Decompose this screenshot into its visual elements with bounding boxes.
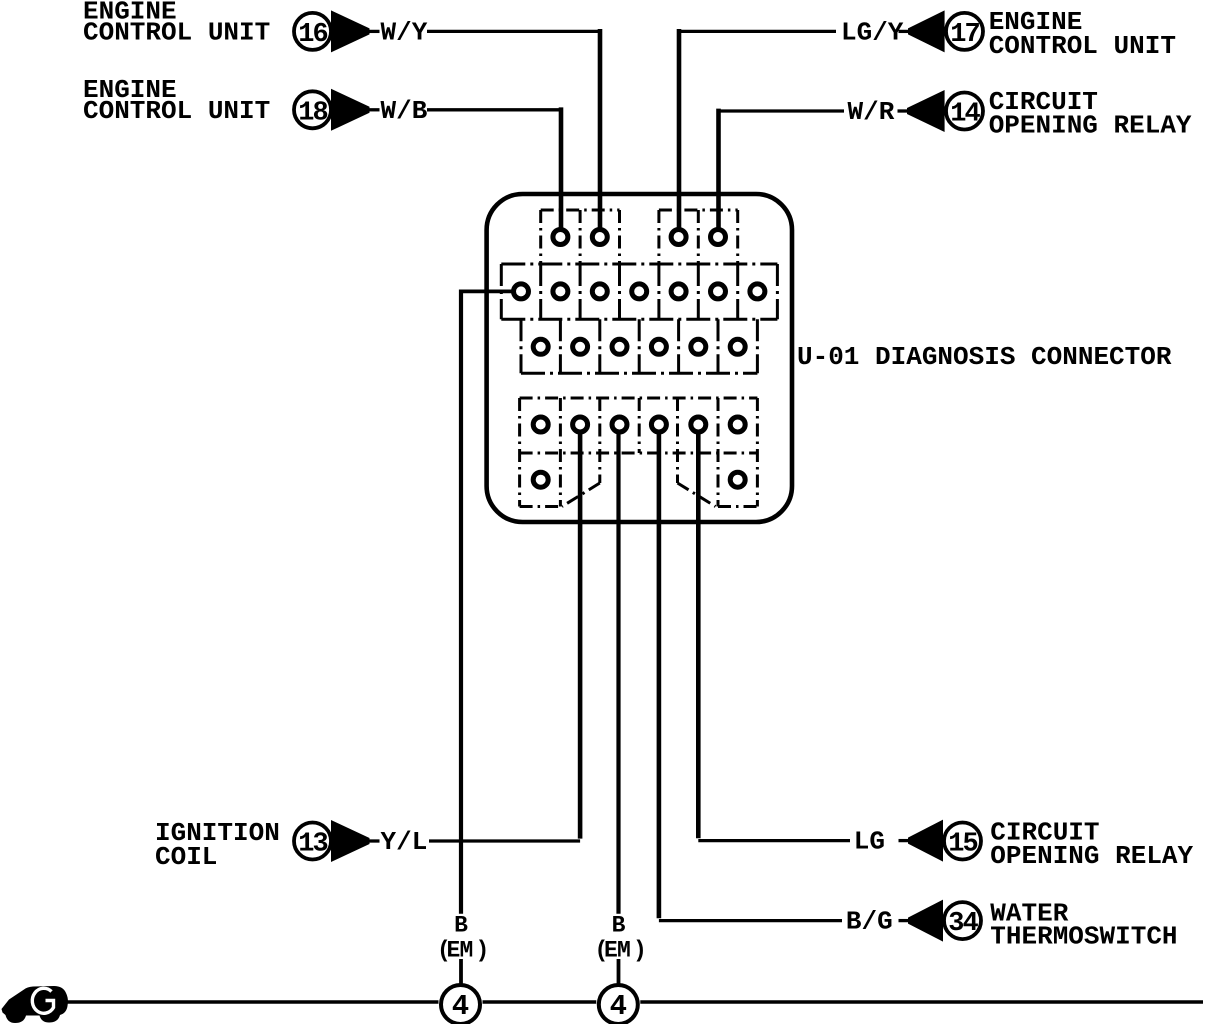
svg-text:15: 15	[948, 830, 977, 860]
arrow from ignition coil 13	[331, 820, 380, 862]
ground rail segment 2	[483, 1000, 597, 1003]
svg-text:Y/L: Y/L	[381, 827, 428, 857]
pin ref circle 14	[946, 93, 983, 130]
wire stub to ground circle 4 left	[459, 959, 463, 984]
ground joint circle 4 left	[441, 985, 480, 1024]
svg-text:B: B	[612, 913, 626, 939]
keying diagonal right	[678, 483, 716, 507]
connector cavity outlines band1 (top row)	[541, 209, 620, 212]
connector cavity outlines band4/5 (bottom group)	[520, 397, 758, 400]
wire W/R to connector pin row1-4	[719, 109, 845, 237]
svg-text:16: 16	[298, 20, 327, 50]
svg-text:THERMOSWITCH: THERMOSWITCH	[990, 921, 1177, 951]
svg-text:(EM): (EM)	[595, 937, 647, 963]
svg-text:13: 13	[298, 830, 327, 860]
pin ref circle 34	[944, 902, 981, 939]
svg-text:OPENING RELAY: OPENING RELAY	[990, 841, 1193, 871]
pin ref circle 17	[946, 13, 983, 50]
wire LG up to connector pin row4-5	[698, 425, 850, 841]
connector body U-01	[487, 194, 792, 522]
arrow from ECU 18	[331, 89, 380, 131]
svg-text:COIL: COIL	[155, 842, 217, 872]
ground joint circle 4 right	[599, 985, 638, 1024]
svg-text:U-01 DIAGNOSIS CONNECTOR: U-01 DIAGNOSIS CONNECTOR	[797, 342, 1172, 372]
arrow to circuit opening relay 15	[899, 820, 944, 862]
wire stub to ground circle 4 right	[617, 959, 621, 984]
ground rail segment 1	[67, 1000, 439, 1003]
svg-text:W/R: W/R	[848, 97, 895, 127]
keying diagonal left	[562, 483, 600, 507]
ground rail segment 3	[640, 1000, 1203, 1003]
svg-text:W/B: W/B	[381, 96, 428, 126]
pin ref circle 13	[294, 823, 331, 860]
connector pins row2	[514, 284, 529, 299]
arrow from ECU 16	[331, 10, 380, 52]
svg-text:CONTROL UNIT: CONTROL UNIT	[83, 18, 270, 48]
svg-text:14: 14	[950, 100, 980, 130]
svg-text:OPENING RELAY: OPENING RELAY	[989, 111, 1192, 141]
wire from pin row2-1 left and down to ground B(EM) left	[461, 290, 521, 914]
connector cavity outlines band3 (6-pin row)	[520, 319, 523, 373]
ground symbol G (car body)	[2, 986, 69, 1023]
wire W/B to connector pin row1-1	[427, 107, 561, 237]
svg-text:B/G: B/G	[846, 906, 893, 936]
ground symbol letter G	[32, 988, 53, 1013]
svg-text:34: 34	[948, 909, 978, 939]
wire Y/L up to connector pin row4-2	[429, 425, 580, 842]
connector pins row3	[533, 339, 548, 354]
wire LG/Y to connector pin row1-3	[679, 29, 836, 237]
svg-text:17: 17	[950, 20, 979, 50]
wire B/G up to connector pin row4-4	[659, 425, 842, 921]
arrow to ECU 17	[899, 10, 945, 52]
connector pins row4	[533, 417, 548, 432]
wire W/Y to connector pin row1-2	[427, 29, 600, 237]
svg-text:18: 18	[298, 98, 327, 128]
svg-text:W/Y: W/Y	[381, 18, 428, 48]
pin ref circle 16	[294, 13, 331, 50]
svg-text:4: 4	[452, 990, 469, 1023]
connector pins row5	[533, 472, 548, 487]
svg-text:LG/Y: LG/Y	[841, 18, 904, 48]
svg-text:(EM): (EM)	[437, 937, 489, 963]
svg-text:LG: LG	[854, 827, 885, 857]
connector pins row1	[553, 230, 568, 245]
svg-text:4: 4	[610, 990, 627, 1023]
svg-text:CONTROL UNIT: CONTROL UNIT	[989, 31, 1176, 61]
wire from pin row4-3 down to B(EM) right	[616, 425, 620, 914]
svg-text:CONTROL UNIT: CONTROL UNIT	[83, 96, 270, 126]
arrow to circuit opening relay 14	[898, 90, 945, 132]
pin ref circle 18	[294, 91, 331, 128]
svg-text:B: B	[454, 913, 468, 939]
arrow to water thermoswitch 34	[899, 900, 944, 942]
pin ref circle 15	[944, 823, 981, 860]
connector cavity outlines band2 (7-pin row)	[501, 263, 777, 266]
